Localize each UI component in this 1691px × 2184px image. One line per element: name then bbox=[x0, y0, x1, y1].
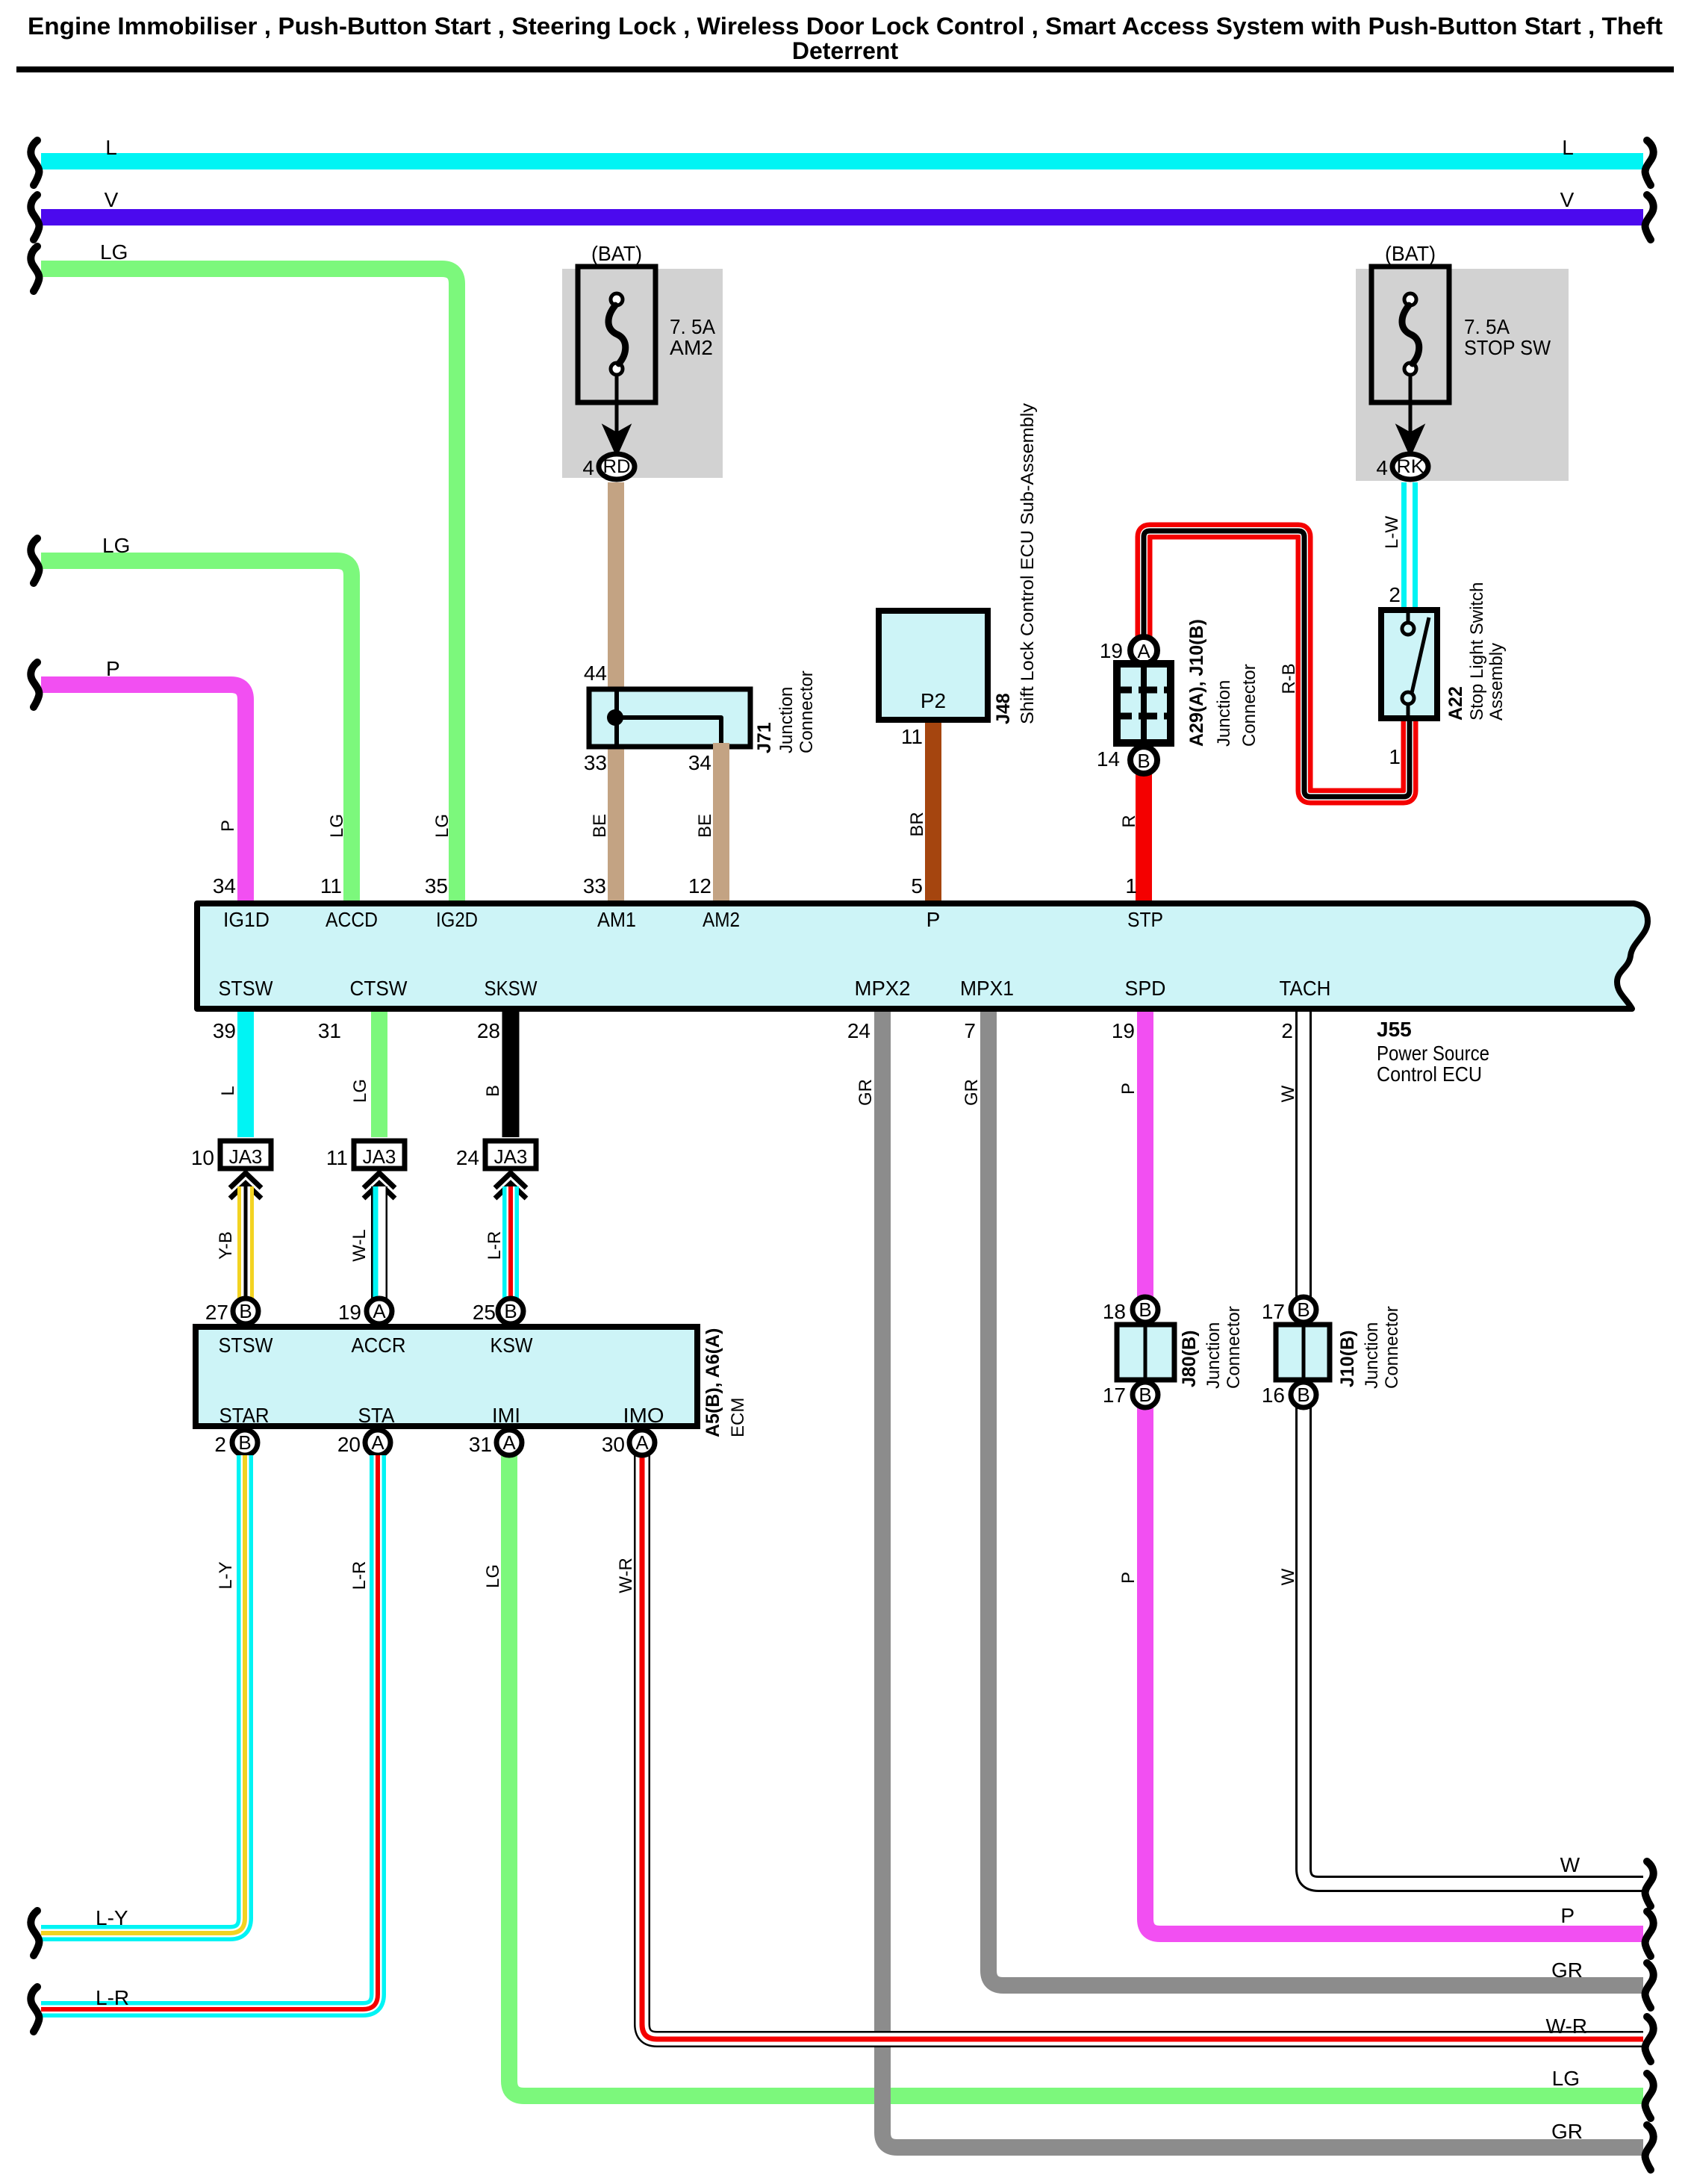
brace P left bbox=[31, 662, 39, 707]
junction connector J71 bbox=[589, 689, 750, 747]
svg-text:P: P bbox=[106, 657, 120, 680]
svg-text:LG: LG bbox=[327, 814, 347, 838]
wire W TACH upper bbox=[1295, 1012, 1312, 1297]
svg-text:19: 19 bbox=[338, 1301, 361, 1324]
wire P to IG1D bbox=[41, 685, 246, 903]
svg-text:W: W bbox=[1278, 1085, 1298, 1102]
svg-text:Connector: Connector bbox=[1239, 664, 1259, 747]
brace LG right bbox=[1645, 2073, 1654, 2118]
svg-text:Control ECU: Control ECU bbox=[1377, 1063, 1482, 1086]
svg-text:P: P bbox=[1118, 1572, 1139, 1584]
svg-text:P2: P2 bbox=[921, 689, 946, 712]
svg-text:W-L: W-L bbox=[349, 1229, 370, 1262]
svg-text:AM2: AM2 bbox=[703, 908, 740, 931]
svg-text:L: L bbox=[105, 136, 117, 159]
svg-text:Connector: Connector bbox=[797, 671, 817, 753]
wire L-R from STA to left edge bbox=[41, 1455, 378, 2009]
svg-text:28: 28 bbox=[477, 1019, 500, 1042]
svg-text:L-Y: L-Y bbox=[96, 1906, 128, 1929]
svg-text:11: 11 bbox=[901, 725, 923, 748]
wire Y-B JA3 to ECM bbox=[237, 1186, 254, 1298]
svg-text:IMI: IMI bbox=[492, 1404, 520, 1427]
svg-text:4: 4 bbox=[582, 456, 594, 479]
svg-text:L-W: L-W bbox=[1382, 516, 1402, 549]
svg-text:R-B: R-B bbox=[1279, 663, 1299, 694]
ECM connector circles top bbox=[233, 1298, 258, 1324]
svg-text:P: P bbox=[1118, 1083, 1139, 1095]
svg-text:STSW: STSW bbox=[219, 977, 274, 1000]
svg-text:RK: RK bbox=[1397, 456, 1424, 477]
svg-text:Y-B: Y-B bbox=[216, 1231, 236, 1260]
wire L-R JA3 to ECM bbox=[502, 1186, 519, 1298]
svg-text:(BAT): (BAT) bbox=[1385, 242, 1436, 265]
svg-text:B: B bbox=[238, 1431, 251, 1454]
svg-text:L-R: L-R bbox=[349, 1561, 370, 1590]
svg-text:B: B bbox=[1297, 1298, 1309, 1321]
svg-text:IG2D: IG2D bbox=[436, 908, 478, 931]
svg-text:17: 17 bbox=[1262, 1300, 1285, 1323]
svg-text:4: 4 bbox=[1376, 456, 1388, 479]
svg-text:LG: LG bbox=[432, 814, 452, 838]
brace L left bbox=[31, 140, 39, 185]
brace L-R left bbox=[31, 1987, 39, 2032]
svg-text:STP: STP bbox=[1127, 908, 1163, 931]
wire B SKSW bbox=[502, 1012, 520, 1137]
svg-text:ACCD: ACCD bbox=[326, 908, 378, 931]
svg-text:TACH: TACH bbox=[1280, 977, 1331, 1000]
svg-text:25: 25 bbox=[473, 1301, 496, 1324]
svg-text:20: 20 bbox=[337, 1433, 361, 1456]
chevron arrows JA3 (24) bbox=[495, 1173, 526, 1188]
svg-text:10: 10 bbox=[191, 1146, 214, 1169]
fuse AM2 shade bbox=[562, 269, 723, 478]
wire LG CTSW bbox=[371, 1012, 387, 1137]
svg-text:Assembly: Assembly bbox=[1486, 643, 1507, 721]
wire L STSW bbox=[237, 1012, 254, 1137]
wire LG from IMI to right edge bbox=[509, 1455, 1643, 2096]
junction JA3 (11) bbox=[354, 1141, 405, 1169]
svg-text:SPD: SPD bbox=[1125, 977, 1166, 1000]
ECU A5(B) A6(A) ECM box bbox=[196, 1327, 697, 1426]
svg-text:7: 7 bbox=[964, 1019, 976, 1042]
svg-text:MPX2: MPX2 bbox=[855, 977, 911, 1000]
svg-text:JA3: JA3 bbox=[363, 1145, 396, 1168]
wire P SPD lower to right edge bbox=[1145, 1407, 1643, 1934]
svg-text:J80(B): J80(B) bbox=[1179, 1331, 1200, 1387]
svg-text:ECM: ECM bbox=[728, 1398, 748, 1437]
wire W TACH lower to right edge bbox=[1304, 1407, 1643, 1884]
svg-text:L-R: L-R bbox=[96, 1986, 129, 2009]
svg-text:LG: LG bbox=[102, 534, 130, 557]
svg-text:33: 33 bbox=[584, 751, 607, 774]
svg-text:24: 24 bbox=[456, 1146, 479, 1169]
wire BE J71 to AM2 bbox=[713, 743, 729, 903]
svg-text:30: 30 bbox=[602, 1433, 625, 1456]
svg-text:19: 19 bbox=[1112, 1019, 1135, 1042]
svg-text:J71: J71 bbox=[754, 722, 775, 753]
svg-text:2: 2 bbox=[214, 1433, 226, 1456]
svg-text:J55: J55 bbox=[1377, 1018, 1412, 1041]
brace V right bbox=[1645, 195, 1654, 240]
svg-text:A29(A), J10(B): A29(A), J10(B) bbox=[1186, 619, 1207, 747]
svg-text:B: B bbox=[1139, 1384, 1151, 1406]
svg-text:34: 34 bbox=[213, 874, 236, 897]
svg-text:MPX1: MPX1 bbox=[960, 977, 1014, 1000]
svg-text:L-R: L-R bbox=[485, 1231, 505, 1260]
svg-text:W: W bbox=[1560, 1853, 1581, 1876]
wire P SPD upper bbox=[1137, 1012, 1153, 1297]
title rule bbox=[16, 66, 1674, 72]
svg-text:Junction: Junction bbox=[1203, 1322, 1224, 1389]
svg-text:B: B bbox=[239, 1300, 252, 1322]
svg-text:LG: LG bbox=[350, 1079, 370, 1103]
svg-text:P: P bbox=[218, 820, 238, 832]
svg-text:B: B bbox=[1139, 1298, 1151, 1321]
wire LG to ACCD bbox=[41, 561, 352, 903]
wire W-R from IMO to right edge bbox=[642, 1455, 1643, 2039]
svg-text:A: A bbox=[371, 1431, 384, 1454]
svg-text:Junction: Junction bbox=[1362, 1322, 1382, 1389]
fuse 7.5A STOP SW bbox=[1371, 267, 1449, 402]
brace GR2 right bbox=[1645, 2125, 1654, 2170]
svg-text:JA3: JA3 bbox=[494, 1145, 528, 1168]
wire V violet bbox=[41, 209, 1643, 225]
svg-text:ACCR: ACCR bbox=[352, 1334, 406, 1357]
svg-text:RD: RD bbox=[603, 456, 631, 477]
wire BR from P2 to P bbox=[925, 717, 941, 903]
svg-text:Shift Lock Control ECU Sub-Ass: Shift Lock Control ECU Sub-Assembly bbox=[1018, 403, 1038, 724]
stop light switch A22 bbox=[1381, 610, 1437, 718]
svg-text:44: 44 bbox=[584, 662, 607, 685]
svg-text:B: B bbox=[504, 1300, 517, 1322]
brace W-R right bbox=[1645, 2017, 1654, 2062]
svg-text:GR: GR bbox=[1551, 2120, 1583, 2143]
svg-text:W-R: W-R bbox=[616, 1558, 636, 1593]
svg-text:33: 33 bbox=[583, 874, 606, 897]
wire W-L cyan stripe bbox=[373, 1186, 379, 1298]
svg-text:Connector: Connector bbox=[1382, 1306, 1402, 1389]
chevron arrows JA3 (10) bbox=[230, 1173, 261, 1188]
brace L right bbox=[1645, 140, 1654, 185]
svg-text:L: L bbox=[1562, 136, 1574, 159]
brace GR right bbox=[1645, 1963, 1654, 2008]
brace W right bbox=[1645, 1861, 1654, 1906]
svg-text:L-Y: L-Y bbox=[216, 1561, 236, 1589]
svg-text:B: B bbox=[483, 1085, 503, 1097]
brace P right bbox=[1645, 1911, 1654, 1956]
svg-text:GR: GR bbox=[856, 1079, 876, 1106]
svg-text:SKSW: SKSW bbox=[485, 977, 538, 1000]
svg-text:1: 1 bbox=[1389, 745, 1401, 768]
svg-text:12: 12 bbox=[688, 874, 711, 897]
svg-text:31: 31 bbox=[469, 1433, 492, 1456]
svg-text:35: 35 bbox=[425, 874, 448, 897]
svg-text:GR: GR bbox=[1551, 1959, 1583, 1982]
svg-text:R: R bbox=[1119, 815, 1139, 827]
svg-text:16: 16 bbox=[1262, 1384, 1285, 1407]
svg-text:14: 14 bbox=[1097, 747, 1120, 771]
wire R-B loop from A22 pin1 to A29 pin19 bbox=[1144, 531, 1410, 797]
svg-text:Stop Light Switch: Stop Light Switch bbox=[1467, 582, 1487, 721]
svg-text:Connector: Connector bbox=[1224, 1306, 1244, 1389]
svg-text:IMO: IMO bbox=[623, 1404, 664, 1427]
junction JA3 (10) bbox=[220, 1141, 271, 1169]
svg-text:5: 5 bbox=[911, 874, 923, 897]
svg-text:V: V bbox=[1560, 188, 1575, 211]
svg-text:A5(B), A6(A): A5(B), A6(A) bbox=[703, 1328, 723, 1437]
svg-text:7. 5A: 7. 5A bbox=[670, 315, 715, 338]
svg-text:Junction: Junction bbox=[1214, 680, 1234, 747]
wire BE from fuse AM2 to AM1 bbox=[608, 482, 624, 903]
svg-text:Engine Immobiliser , Push-Butt: Engine Immobiliser , Push-Button Start ,… bbox=[28, 13, 1663, 40]
svg-text:AM1: AM1 bbox=[597, 908, 636, 931]
svg-text:Power Source: Power Source bbox=[1377, 1042, 1489, 1065]
svg-text:L: L bbox=[218, 1086, 238, 1095]
wire GR MPX1 bbox=[988, 1012, 1643, 1985]
wire L-Y from STAR to left edge bbox=[41, 1455, 245, 1933]
svg-text:(BAT): (BAT) bbox=[591, 242, 642, 265]
svg-text:P: P bbox=[1560, 1904, 1575, 1927]
svg-text:LG: LG bbox=[483, 1564, 503, 1588]
svg-text:JA3: JA3 bbox=[229, 1145, 263, 1168]
brace L-Y left bbox=[31, 1911, 39, 1956]
fuse 7.5A AM2 bbox=[578, 267, 655, 402]
svg-text:BE: BE bbox=[590, 814, 610, 838]
svg-text:11: 11 bbox=[326, 1146, 348, 1169]
svg-text:LG: LG bbox=[1552, 2067, 1580, 2090]
brace LG2 left bbox=[31, 538, 39, 583]
ECU J55 Power Source Control ECU bbox=[197, 903, 1648, 1009]
wire R from A29 pin14 to STP bbox=[1136, 772, 1152, 903]
svg-text:A: A bbox=[635, 1431, 649, 1454]
svg-text:A22: A22 bbox=[1445, 686, 1466, 721]
svg-text:Deterrent: Deterrent bbox=[792, 37, 899, 64]
svg-text:LG: LG bbox=[100, 240, 128, 264]
chevron arrows JA3 (11) bbox=[364, 1173, 395, 1188]
wire LG to IG2D bbox=[41, 269, 457, 903]
junction JA3 (24) bbox=[485, 1141, 536, 1169]
svg-text:31: 31 bbox=[318, 1019, 341, 1042]
wire W-L JA3 to ECM bbox=[371, 1186, 387, 1298]
svg-text:STAR: STAR bbox=[219, 1404, 270, 1427]
svg-text:Junction: Junction bbox=[776, 687, 797, 753]
svg-text:V: V bbox=[105, 188, 119, 211]
svg-text:STA: STA bbox=[358, 1404, 395, 1427]
svg-text:J10(B): J10(B) bbox=[1337, 1331, 1358, 1387]
svg-text:CTSW: CTSW bbox=[350, 977, 408, 1000]
wire L cyan top bbox=[41, 153, 1643, 169]
svg-text:A: A bbox=[373, 1300, 386, 1322]
wire L-W from fuse STOP SW to A22 bbox=[1401, 482, 1418, 612]
brace V left bbox=[31, 195, 39, 240]
svg-text:A: A bbox=[1137, 640, 1150, 662]
svg-text:17: 17 bbox=[1103, 1384, 1126, 1407]
svg-text:GR: GR bbox=[962, 1079, 982, 1106]
svg-text:P: P bbox=[927, 908, 941, 931]
ECU P2 box J48 bbox=[879, 611, 988, 720]
wire GR MPX2 bbox=[882, 1012, 1643, 2147]
svg-text:J48: J48 bbox=[993, 693, 1014, 724]
svg-text:AM2: AM2 bbox=[670, 336, 713, 359]
svg-text:KSW: KSW bbox=[491, 1334, 534, 1357]
svg-text:BE: BE bbox=[695, 814, 715, 838]
fuse STOP SW shade bbox=[1356, 269, 1569, 481]
svg-text:B: B bbox=[1137, 750, 1150, 772]
svg-text:STSW: STSW bbox=[219, 1334, 274, 1357]
brace LG left bbox=[31, 246, 39, 291]
svg-text:24: 24 bbox=[847, 1019, 871, 1042]
svg-text:2: 2 bbox=[1281, 1019, 1293, 1042]
svg-text:34: 34 bbox=[688, 751, 711, 774]
svg-text:W-R: W-R bbox=[1546, 2015, 1587, 2038]
svg-text:1: 1 bbox=[1125, 874, 1137, 897]
svg-text:27: 27 bbox=[205, 1301, 228, 1324]
svg-text:A: A bbox=[502, 1431, 516, 1454]
svg-text:11: 11 bbox=[320, 874, 342, 897]
svg-text:2: 2 bbox=[1389, 583, 1401, 606]
svg-text:39: 39 bbox=[213, 1019, 236, 1042]
svg-text:STOP SW: STOP SW bbox=[1464, 336, 1551, 359]
svg-text:18: 18 bbox=[1103, 1300, 1126, 1323]
svg-text:19: 19 bbox=[1100, 639, 1123, 662]
ECM connector circles bottom bbox=[232, 1430, 258, 1455]
svg-text:W: W bbox=[1278, 1568, 1298, 1585]
svg-text:B: B bbox=[1297, 1384, 1309, 1406]
svg-text:7. 5A: 7. 5A bbox=[1464, 315, 1510, 338]
svg-text:IG1D: IG1D bbox=[223, 908, 270, 931]
svg-text:BR: BR bbox=[907, 812, 927, 836]
